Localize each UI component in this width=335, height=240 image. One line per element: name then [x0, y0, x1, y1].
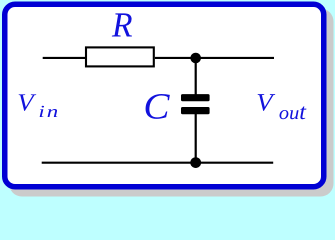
- wire: top-left segment (Vin to resistor): [43, 57, 86, 59]
- wire: vertical from capacitor to bottom node: [195, 114, 197, 163]
- wire: top-right segment (resistor to Vout): [155, 57, 274, 59]
- svg-text:C: C: [143, 87, 170, 128]
- label C: [143, 87, 170, 128]
- label V_in subscript in: [38, 102, 60, 121]
- capacitor C bottom plate: [181, 107, 210, 114]
- svg-text:R: R: [111, 5, 132, 44]
- node: bottom junction dot: [190, 157, 201, 168]
- svg-text:in: in: [38, 102, 60, 121]
- label V_in V: [17, 89, 37, 116]
- resistor R: [86, 47, 154, 66]
- wire: bottom rail: [42, 162, 274, 164]
- svg-text:out: out: [279, 99, 307, 124]
- label R: [111, 5, 132, 44]
- label V_out V: [256, 89, 276, 116]
- capacitor C top plate: [181, 94, 210, 101]
- node: top junction dot: [190, 53, 201, 64]
- wire: vertical from top node to capacitor: [195, 58, 197, 95]
- label V_out subscript out: [279, 99, 307, 124]
